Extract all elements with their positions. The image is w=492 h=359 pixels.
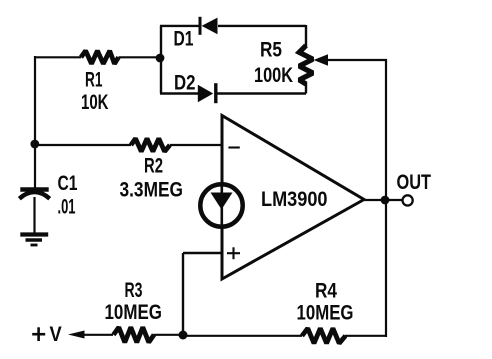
- svg-text:10MEG: 10MEG: [105, 301, 163, 324]
- resistor R3: [114, 327, 184, 342]
- diode D2: [198, 83, 216, 103]
- op-amp U1 LM3900 triangle: [222, 116, 364, 280]
- svg-text:R5: R5: [260, 39, 282, 62]
- svg-text:D1: D1: [174, 28, 194, 51]
- svg-text:10K: 10K: [81, 91, 109, 114]
- svg-text:10MEG: 10MEG: [297, 302, 354, 325]
- wire diode-box left edge: [160, 26, 162, 94]
- wire diode-box top edge: [160, 25, 306, 27]
- node junction bottom (R3/R4/+ input): [179, 331, 188, 340]
- svg-text:3.3MEG: 3.3MEG: [120, 179, 184, 202]
- potentiometer R5: [299, 46, 313, 94]
- svg-text:V: V: [50, 323, 62, 346]
- svg-text:LM3900: LM3900: [261, 188, 328, 211]
- svg-text:C1: C1: [58, 172, 78, 195]
- svg-text:.01: .01: [58, 196, 76, 219]
- wire diode-box right edge top: [305, 25, 307, 47]
- op-amp plus input sign: [227, 247, 240, 259]
- resistor R1: [35, 51, 161, 64]
- svg-text:100K: 100K: [254, 64, 293, 87]
- resistor R2: [35, 139, 222, 152]
- resistor R4: [183, 328, 387, 343]
- wire op-amp output: [362, 199, 402, 201]
- op-amp minus input sign: [228, 146, 239, 148]
- svg-text:OUT: OUT: [397, 171, 432, 194]
- svg-text:D2: D2: [174, 72, 196, 95]
- diode D1: [200, 17, 218, 35]
- svg-text:R4: R4: [315, 280, 337, 303]
- capacitor C1: [19, 190, 49, 234]
- node junction R1 / diode box: [156, 54, 165, 63]
- wire plus input: [183, 253, 222, 335]
- wire left vertical: [34, 56, 36, 188]
- R5 wiper arrow and wire: [314, 54, 388, 66]
- svg-text:R3: R3: [125, 279, 143, 302]
- svg-text:R2: R2: [144, 155, 163, 178]
- terminal OUT circle: [403, 195, 413, 205]
- ground: [20, 235, 48, 246]
- current source symbol inside op-amp: [200, 184, 242, 227]
- wire diode-box bottom edge: [160, 92, 306, 94]
- +V terminal arrow: [68, 331, 113, 339]
- node junction C1 / R2: [30, 140, 39, 149]
- node junction output: [381, 196, 390, 205]
- svg-text:R1: R1: [85, 69, 103, 92]
- wire right vertical (output bus): [385, 59, 387, 337]
- +V label: [32, 323, 62, 346]
